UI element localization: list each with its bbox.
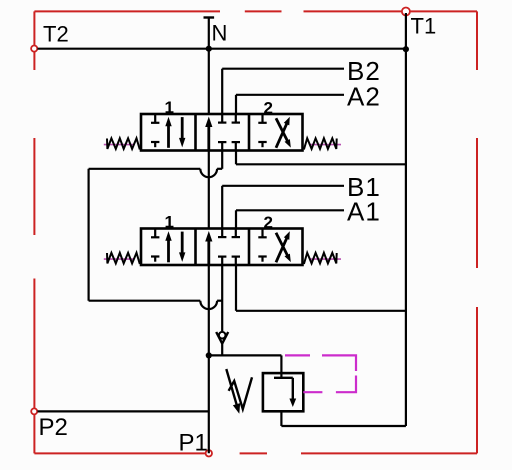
svg-text:T1: T1	[411, 14, 437, 39]
svg-text:N: N	[212, 21, 228, 46]
svg-text:2: 2	[264, 213, 273, 232]
svg-text:A2: A2	[347, 82, 381, 112]
svg-text:2: 2	[264, 99, 273, 118]
svg-text:P1: P1	[179, 430, 208, 457]
svg-text:A1: A1	[347, 197, 381, 227]
svg-text:1: 1	[165, 98, 174, 117]
svg-text:1: 1	[165, 213, 174, 232]
svg-text:P2: P2	[39, 414, 68, 441]
svg-text:T2: T2	[43, 22, 69, 47]
